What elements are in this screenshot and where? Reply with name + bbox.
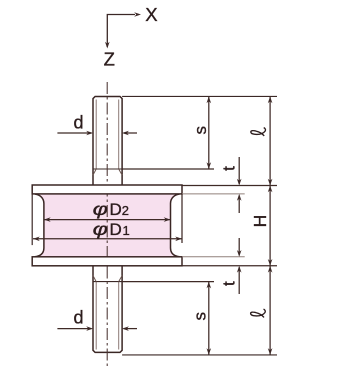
extension line plate1 top: [182, 185, 277, 187]
dimension d top: line and arrows: [57, 132, 91, 134]
svg-text:φ: φ: [93, 219, 108, 239]
D1 extension line left: [31, 194, 33, 245]
svg-text:φ: φ: [93, 199, 108, 219]
bottom stud thread runout right: [119, 276, 122, 282]
dimension d bottom: line and arrows: [57, 328, 91, 330]
bottom plate: [32, 257, 182, 266]
extension line thread end bottom: [122, 281, 214, 283]
top stud thread line right: [118, 100, 120, 170]
extension line stud top (right): [122, 95, 277, 97]
bottom stud: [93, 266, 122, 352]
axis X arrow: [107, 15, 135, 48]
dimension D2 line: [44, 219, 171, 221]
extension line plate2 top: [182, 256, 245, 258]
axis X arrowhead: [134, 12, 141, 17]
extension line stud bottom (right): [122, 354, 277, 356]
top stud thread runout left: [93, 169, 96, 175]
extension line plate2 bottom: [182, 265, 277, 267]
top stud thread runout right: [119, 169, 122, 175]
svg-text:X: X: [145, 4, 157, 25]
extension line thread end top: [122, 168, 214, 170]
rubber body (pink): [35, 194, 180, 257]
svg-text:d: d: [74, 308, 84, 328]
D1 extension line right: [181, 194, 183, 243]
svg-text:D2: D2: [110, 200, 130, 219]
label l top (script ell): [251, 128, 266, 136]
svg-text:s: s: [190, 312, 209, 321]
svg-text:d: d: [74, 112, 84, 132]
axis Z arrowhead: [105, 42, 110, 49]
top stud: [93, 97, 122, 186]
bottom stud thread runout left: [93, 276, 96, 282]
dimension D1 line: [33, 238, 182, 240]
centerline over body: [106, 82, 108, 368]
dimension t top plate: [238, 157, 240, 213]
rubber right edge: [171, 194, 180, 257]
bottom stud thread line right: [118, 282, 120, 350]
bottom stud thread line left: [95, 282, 97, 350]
svg-text:Z: Z: [104, 48, 115, 69]
top plate: [32, 185, 182, 194]
svg-text:t: t: [219, 166, 238, 171]
dimension t bottom plate: [238, 238, 240, 294]
bottom stud thread end line: [93, 281, 122, 283]
svg-text:D1: D1: [110, 220, 130, 239]
H arrows: [268, 186, 273, 193]
dimension s bottom: [208, 282, 210, 355]
top stud thread line left: [95, 100, 97, 170]
svg-text:s: s: [191, 126, 210, 135]
label l bottom (script ell): [251, 309, 266, 317]
rubber left edge: [35, 194, 44, 257]
l top arrows: [268, 96, 273, 103]
l bottom arrows: [268, 266, 273, 273]
svg-text:H: H: [250, 215, 270, 228]
dimension s top: [208, 96, 210, 169]
svg-text:t: t: [219, 281, 238, 286]
extension line plate1 bottom: [182, 193, 245, 195]
top stud thread end line: [93, 168, 122, 170]
dimension line l/H/l vertical: [269, 96, 271, 355]
